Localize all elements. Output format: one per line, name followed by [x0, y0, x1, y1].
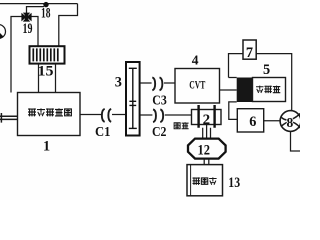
shaft: engine to C1: [80, 114, 101, 116]
compressor 5 body: [253, 78, 286, 102]
svg-text:19: 19: [23, 21, 33, 37]
svg-text:1: 1: [43, 139, 50, 155]
wire: valve riser to junction 18: [27, 7, 45, 14]
gearbox 3: [126, 62, 140, 136]
pipe: discharge loop top (left rise + top run + right drop): [229, 54, 244, 78]
svg-text:12: 12: [198, 142, 211, 158]
shaft: engine left stub shaft: [0, 113, 18, 123]
radiator 15: [30, 46, 65, 63]
pipe: stub into compressor top: [229, 77, 237, 79]
svg-text:13: 13: [228, 175, 240, 191]
svg-text:3: 3: [115, 75, 122, 91]
coupling C2: [153, 109, 163, 122]
wire: valve to radiator downpipe: [31, 17, 38, 47]
shaft: C1 to gearbox: [112, 114, 126, 116]
valve 19 (three-way valve): [21, 13, 31, 22]
svg-text:CVT: CVT: [189, 80, 205, 92]
pipe: box 6 to fan 8: [264, 120, 281, 122]
motor 2: [192, 110, 222, 125]
wire: radiator to engine pipe right: [55, 64, 57, 93]
condenser fan 8: [280, 111, 301, 132]
svg-text:4: 4: [192, 52, 199, 67]
node 18 junction dot: [43, 2, 48, 7]
wire: radiator to engine pipe left: [38, 64, 40, 93]
coupling C3: [152, 77, 162, 90]
wire: motor three-phase leads: [203, 125, 211, 139]
valve box 7: [243, 40, 256, 59]
svg-text:18: 18: [41, 5, 51, 21]
svg-text:C1: C1: [95, 125, 111, 140]
svg-text:C3: C3: [152, 94, 167, 109]
battery 13: [187, 165, 223, 196]
label: engine text 燃气发动机: [28, 108, 71, 116]
label: motor text 电机: [174, 122, 189, 129]
coupling C1: [102, 109, 111, 122]
shaft: gearbox to C2: [140, 114, 153, 116]
label: battery text 锂电池: [193, 177, 217, 185]
svg-text:7: 7: [246, 45, 253, 61]
receiver box 6: [237, 109, 263, 132]
inverter 12 (octagon): [188, 139, 226, 159]
svg-text:6: 6: [249, 114, 256, 130]
svg-text:8: 8: [287, 115, 294, 130]
pipe: fan 8 outlet to right edge: [291, 131, 301, 151]
wire: coolant top pipe: [0, 3, 78, 5]
svg-text:15: 15: [38, 64, 54, 80]
pump (left edge, cut off): [0, 25, 6, 39]
shaft: CVT to compressor: [220, 89, 237, 91]
compressor clutch (black block): [237, 78, 253, 103]
wire: engine outlet riser to valve: [11, 17, 22, 93]
label: compressor text 压缩机: [256, 86, 280, 94]
shaft: gearbox to C3: [140, 82, 152, 84]
pipe: compressor bottom U to box 6: [229, 102, 238, 120]
svg-text:5: 5: [263, 62, 270, 78]
wire: top pipe hook down-left-down to radiator: [59, 4, 78, 47]
CVT 4: [175, 69, 220, 104]
shaft: C3 to CVT: [164, 82, 175, 84]
svg-text:C2: C2: [152, 125, 167, 140]
engine 1 (gas engine box): [18, 93, 81, 136]
shaft: C2 to motor: [165, 114, 192, 116]
wire: inverter to battery: [204, 159, 209, 165]
